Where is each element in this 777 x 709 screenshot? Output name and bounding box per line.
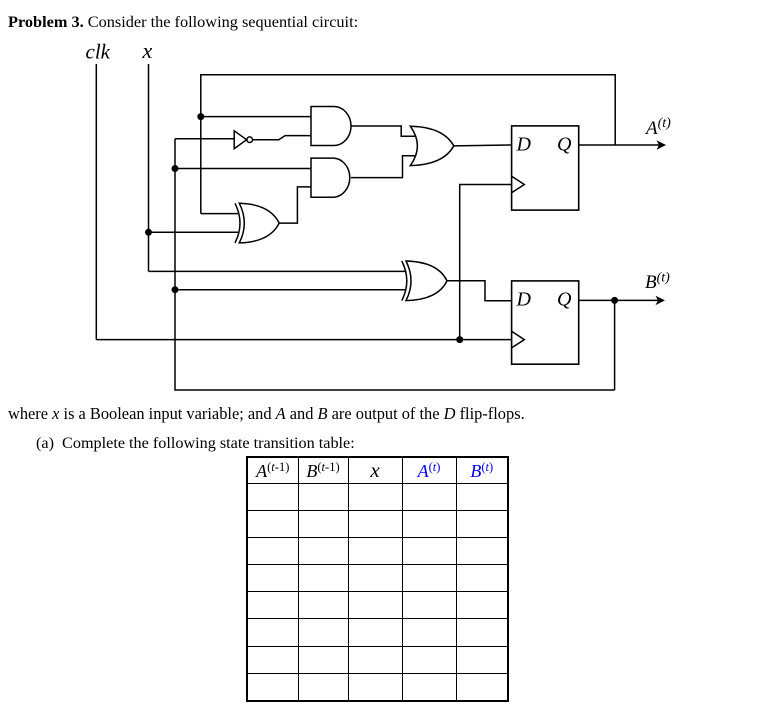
- problem statement: [8, 12, 358, 32]
- wire xor1 output to and2 input: [279, 187, 311, 223]
- and-gate G3: [311, 158, 350, 197]
- flip-flop U2 clock triangle: [512, 331, 525, 348]
- svg-text:Q: Q: [557, 134, 572, 156]
- junction B feedback to xor2: [172, 286, 179, 293]
- wire A feedback to and1 input: [201, 116, 311, 118]
- wire clk horizontal to flip-flop clocks: [96, 339, 511, 341]
- wire x to xor1 input: [149, 231, 239, 233]
- svg-text:clk: clk: [86, 40, 111, 64]
- flip-flop U1: [512, 126, 579, 210]
- wire inverter output to and1: [253, 136, 312, 140]
- or-gate G5: [410, 126, 454, 165]
- xor-gate G6 body: [406, 261, 447, 301]
- wire B feedback to xor2 input: [175, 289, 406, 291]
- xor-gate G6 extra curve: [402, 261, 407, 301]
- state transition table: [246, 456, 509, 702]
- flip-flop U2: [512, 281, 579, 364]
- wire B output feedback drop: [614, 300, 616, 390]
- svg-text:Q: Q: [557, 289, 572, 311]
- wire and1 output to or input: [351, 126, 416, 136]
- wire and2 output to or input: [351, 156, 416, 178]
- junction B output feedback: [611, 297, 618, 304]
- wire B feedback to inverter input: [175, 138, 234, 140]
- wire clk vertical: [95, 64, 97, 340]
- arrowhead A output: [657, 140, 667, 149]
- wire A feedback to xor1 input: [201, 213, 238, 215]
- wire B feedback bottom: [175, 139, 615, 390]
- svg-text:B(t): B(t): [645, 270, 670, 293]
- junction clk riser: [456, 336, 463, 343]
- part (a) text: [36, 434, 355, 453]
- wire B feedback to and2 input: [175, 168, 311, 170]
- and-gate G2: [311, 107, 351, 146]
- arrowhead B output: [656, 296, 666, 305]
- xor-gate G4 body: [239, 203, 279, 243]
- flip-flop U1 clock triangle: [512, 176, 525, 193]
- svg-text:D: D: [516, 289, 532, 311]
- wire xor2 output to U2 D input: [447, 281, 512, 301]
- inverter G1 bubble: [247, 137, 253, 143]
- wire clk riser to U1 clock: [460, 185, 512, 340]
- junction x to xor1: [145, 229, 152, 236]
- wire x vertical: [148, 64, 150, 271]
- svg-text:D: D: [516, 134, 532, 156]
- junction B feedback to and2: [172, 165, 179, 172]
- svg-text:x: x: [142, 38, 153, 63]
- wire or output to U1 D input: [454, 144, 512, 147]
- wire x to xor2 input: [149, 270, 407, 272]
- xor-gate G4 extra curve: [235, 203, 240, 243]
- wire A output: [579, 144, 660, 146]
- svg-text:A(t): A(t): [644, 116, 671, 139]
- wire B output: [579, 299, 659, 301]
- inverter G1: [234, 131, 246, 149]
- junction A feedback to and1: [197, 113, 204, 120]
- caption text: [8, 404, 525, 424]
- wire A feedback top: [201, 75, 615, 214]
